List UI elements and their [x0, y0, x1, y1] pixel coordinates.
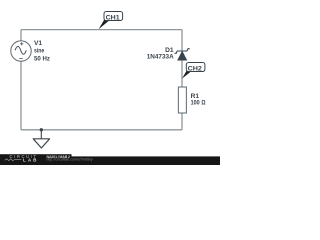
svg-text:100 Ω: 100 Ω	[191, 100, 206, 107]
svg-text:sine: sine	[34, 48, 45, 55]
wire top horizontal	[21, 29, 182, 31]
wire left vertical (source top stub)	[20, 30, 22, 41]
svg-text:50 Hz: 50 Hz	[34, 55, 51, 62]
probe CH1	[99, 12, 123, 30]
svg-text:1N4733A: 1N4733A	[147, 54, 174, 61]
voltage source V1	[11, 41, 31, 61]
footer bar	[0, 156, 220, 165]
wire bottom horizontal	[21, 129, 182, 131]
footer badge	[0, 154, 72, 165]
wire resistor to bottom rail	[181, 113, 183, 130]
probe CH2	[182, 63, 205, 79]
resistor R1	[178, 87, 186, 113]
svg-text:CH1: CH1	[106, 15, 120, 22]
junction node on bottom wire	[40, 128, 43, 131]
svg-text:V1: V1	[34, 40, 42, 47]
wire right vertical (top to diode)	[181, 30, 183, 51]
svg-text:http://circuitlab.com/c/7mb6ky: http://circuitlab.com/c/7mb6ky	[47, 158, 93, 162]
zener diode D1	[175, 49, 190, 61]
wire diode to resistor	[181, 60, 183, 87]
svg-text:CH2: CH2	[188, 66, 203, 73]
ground	[33, 130, 49, 148]
wire left vertical (source bottom to bottom rail)	[20, 61, 22, 130]
svg-text:LAB: LAB	[23, 158, 37, 163]
footer logo waveform	[5, 159, 22, 161]
